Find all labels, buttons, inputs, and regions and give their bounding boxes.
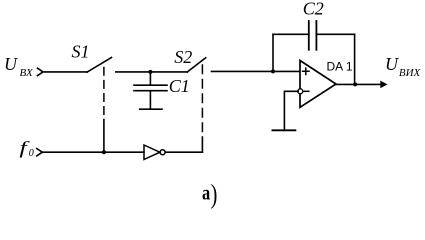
svg-text:0: 0: [29, 148, 34, 159]
svg-text:): ): [211, 181, 218, 209]
svg-text:S2: S2: [174, 47, 192, 67]
svg-text:U: U: [385, 54, 399, 74]
svg-text:C2: C2: [303, 0, 324, 18]
svg-text:DA 1: DA 1: [327, 60, 353, 74]
svg-text:U: U: [4, 54, 18, 74]
svg-text:ВИХ: ВИХ: [399, 67, 422, 79]
svg-text:ВХ: ВХ: [20, 67, 34, 79]
svg-text:C1: C1: [169, 76, 190, 96]
svg-text:S1: S1: [72, 41, 90, 61]
svg-text:a: a: [202, 182, 211, 205]
